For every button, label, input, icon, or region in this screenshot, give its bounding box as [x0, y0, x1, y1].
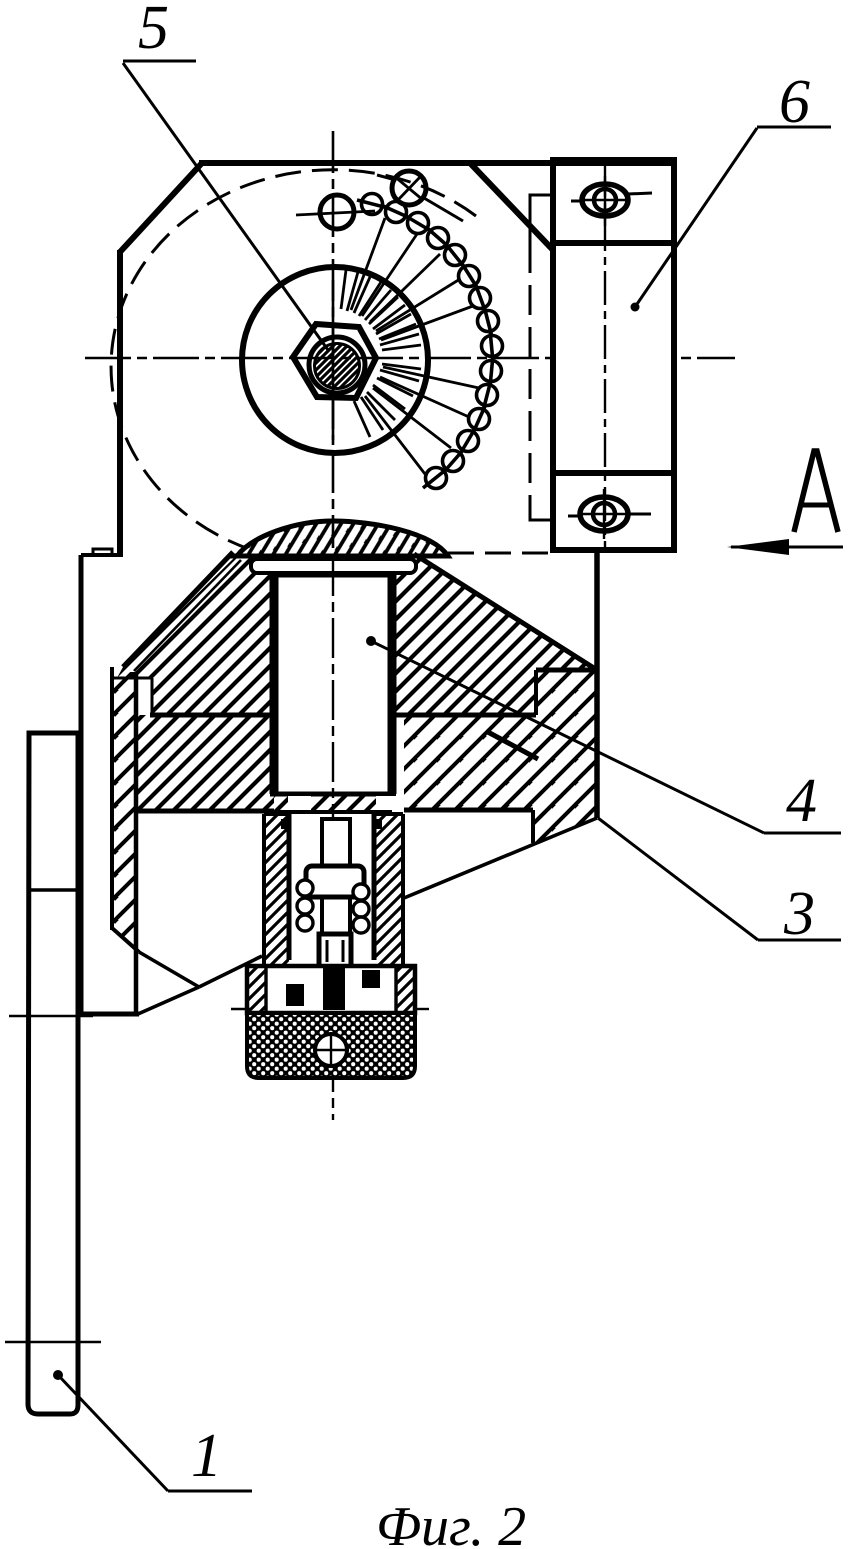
phantom dashed circle — [111, 170, 476, 563]
top pin circle 2 — [392, 171, 426, 205]
knurled knob — [247, 1013, 415, 1078]
notch lines left — [112, 677, 152, 680]
shelf lines y=715 — [150, 713, 274, 718]
plate centerline — [604, 163, 606, 547]
screw rod — [322, 819, 350, 938]
centerline cross of hub — [332, 280, 335, 440]
spring coil chain — [357, 194, 503, 489]
right slant — [414, 554, 597, 670]
radial fan rays — [341, 218, 479, 474]
left band hatched — [137, 715, 274, 812]
top pin circle 1 — [320, 195, 354, 229]
center strip under bore — [274, 794, 392, 812]
lower guide block — [319, 934, 351, 970]
right outer vertical — [594, 551, 600, 818]
strip white gaps + column top marks — [288, 796, 311, 812]
dome base line — [230, 554, 448, 559]
leader 3 — [598, 818, 758, 940]
knob top block — [247, 966, 415, 1013]
long diagonal cut (visible parts) — [404, 818, 597, 898]
housing top edge — [199, 160, 676, 166]
white underlay to mask circle/ellipse — [100, 548, 602, 1013]
left slant — [123, 552, 233, 667]
stem columns — [264, 814, 289, 966]
top-right chamfer — [470, 163, 553, 250]
leader 5 — [123, 60, 196, 63]
hatched screw tip — [315, 344, 360, 389]
hidden dashed housing edge behind plate — [530, 195, 553, 243]
inner washer circle — [309, 337, 365, 393]
right band hatched — [404, 670, 597, 844]
bracket bottom edge — [79, 1012, 139, 1017]
plate body — [553, 160, 674, 550]
washer under dome — [251, 559, 416, 573]
left thin column hatched — [113, 672, 136, 950]
outline edges of cut parts — [123, 551, 597, 843]
upper slot hole — [582, 184, 628, 216]
lower slot hole — [580, 497, 628, 531]
view A arrow — [731, 546, 843, 549]
vertical centerline — [332, 131, 335, 556]
horizontal centerline — [85, 357, 735, 360]
caption — [376, 1495, 526, 1549]
label 6 — [779, 67, 810, 138]
left bar (item 1) — [28, 733, 78, 1414]
left step — [81, 553, 122, 557]
label 3 — [784, 879, 815, 950]
label 4 — [786, 766, 817, 837]
lower-left outer edge — [79, 555, 84, 1014]
nut block on rod — [306, 866, 364, 897]
knob centreline ticks — [231, 1008, 250, 1010]
top-left chamfer — [120, 163, 202, 252]
hex nut — [293, 324, 376, 398]
right cone hatched — [392, 556, 597, 715]
leader 4 — [366, 636, 376, 646]
dome cap hatched — [237, 521, 448, 556]
band bottom y=810 — [136, 809, 274, 814]
leader 1 — [53, 1370, 63, 1380]
hidden dashed bottom edge of housing — [448, 552, 553, 555]
knob screw circle — [315, 1034, 347, 1066]
housing left edge — [117, 250, 123, 557]
leader 6 — [631, 303, 640, 312]
label 5 — [138, 0, 169, 64]
bore — [270, 573, 279, 794]
letter A (view label) — [794, 451, 838, 532]
big circle (washer face) — [242, 267, 428, 453]
step edges right — [536, 668, 597, 673]
center line through bore — [332, 556, 334, 1120]
label 1 — [191, 1421, 222, 1492]
spring coil circles — [297, 880, 369, 933]
left cone hatched — [117, 556, 274, 715]
V notch bottom left — [139, 952, 199, 987]
left column edges — [110, 667, 114, 930]
